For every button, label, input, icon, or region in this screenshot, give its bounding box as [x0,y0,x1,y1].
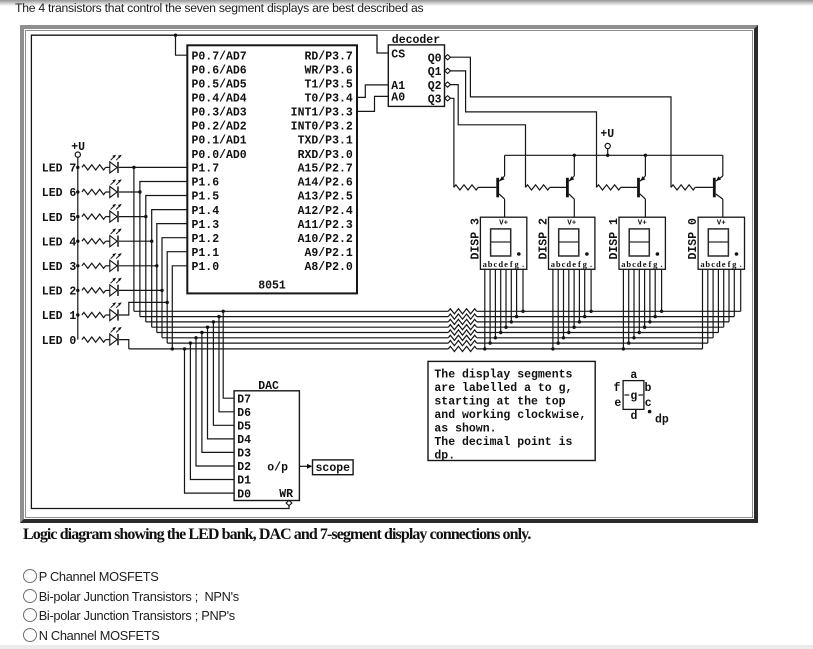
resistor: series resistor in bus line 4 [448,325,476,330]
wire: 8051 P1.0 over and down to bus line 8 [172,266,187,349]
wire: DISP 0 segment d riser [717,269,719,332]
wire: DISP 2 segment dp riser [590,269,592,311]
resistor: LED 1 series resistor [82,312,106,317]
junction: riser a on bus line 8 [622,347,625,350]
junction: riser b on bus line 7 [627,341,630,344]
svg-text:starting at the top: starting at the top [434,395,565,408]
junction: P1.7 tap [132,166,135,169]
junction: LED 2 joins P1.2 vertical [160,289,163,292]
svg-text:b: b [705,259,710,269]
LED 0 diode symbol [110,327,122,345]
symbol: decimal point of DISP 2 [585,252,589,256]
junction: D1 tap on bus line 7 [189,341,192,344]
LED 1 diode symbol [110,302,122,320]
svg-text:f: f [510,259,513,269]
junction: D2 tap on bus line 6 [194,336,197,339]
wire: resistor to LED 0 [106,339,110,341]
wire: DISP 0 segment c riser [712,269,714,338]
wire: resistor to LED 5 [106,216,110,218]
svg-text:INT1/P3.3: INT1/P3.3 [291,107,353,120]
wire: bus line 5 tap down to DAC D3 [202,333,234,453]
svg-text:+U: +U [600,128,614,141]
svg-text:a: a [630,369,637,382]
wire: DISP 1 segment dp riser [661,269,663,311]
wire: DISP 2 segment a riser [552,269,554,349]
wire: DISP 1 segment b riser [628,269,630,343]
svg-text:8051: 8051 [258,279,286,292]
pin labels abcdefg. of DISP 1 [621,259,662,269]
junction: riser f on bus line 3 [578,320,581,323]
resistor: LED 6 series resistor [82,189,106,194]
svg-text:V+: V+ [638,219,648,227]
junction: riser g on bus line 2 [654,315,657,318]
resistor: LED 4 series resistor [82,239,106,244]
wire: DISP 0 segment dp riser [740,269,742,311]
wire: DISP 2 segment c riser [563,269,565,338]
svg-text:d: d [631,410,638,423]
resistor: base resistor of driver Q1 (DISP 0) [671,185,695,190]
junction: rail/LED 3 [76,264,79,267]
wire: base resistor to transistor base [550,186,566,188]
resistor: LED 5 series resistor [82,214,106,219]
junction: rail/+U feed [606,154,609,157]
pin labels abcdefg. of DISP 3 [483,259,524,269]
svg-text:TXD/P3.1: TXD/P3.1 [298,135,353,148]
junction: rail/LED 4 [76,240,79,243]
svg-text:o/p: o/p [267,462,288,475]
wire: DISP 2 segment g riser [584,269,586,316]
wire: collector of Q2 down to DISP 1 V+ [644,199,646,217]
svg-text:RXD/P3.0: RXD/P3.0 [298,149,353,162]
svg-text:DAC: DAC [258,380,279,393]
junction: D5 tap on bus line 3 [212,320,215,323]
symbol: decimal point of DISP 3 [517,252,521,256]
junction: riser b on bus line 7 [557,341,560,344]
decoder U2 box [388,45,444,107]
svg-text:g: g [630,390,637,403]
wire: bus line 1 tap down to DAC D7 [223,311,234,398]
wire: segment bus line 8 [129,348,449,350]
wire: bus line 7 to displays [477,342,708,344]
wire: DISP 1 segment g riser [654,269,656,316]
wire: Q2 to DISP 2 driver base resistor [451,85,526,188]
junction: riser d on bus line 5 [638,331,641,334]
svg-text:P1.2: P1.2 [192,233,220,246]
svg-text:g: g [583,259,588,269]
svg-text:.: . [661,259,663,269]
connector: Q1 output terminal [445,68,451,73]
junction: riser dp on bus line 1 [589,310,592,313]
pin labels abcdefg. of DISP 2 [551,259,592,269]
svg-text:d: d [498,259,503,269]
wire: emitter of Q3 up to +U rail [573,155,575,176]
wire: DISP 0 segment b riser [707,269,709,343]
svg-text:P0.1/AD1: P0.1/AD1 [192,135,247,148]
junction: riser c on bus line 6 [494,336,497,339]
svg-text:c: c [645,397,652,410]
junction: rail/T3 emitter [644,154,647,157]
wire: bus line 3 to displays [477,321,729,323]
svg-text:P0.7/AD7: P0.7/AD7 [192,50,247,63]
wire: LED 6 to its vertical [119,191,140,193]
wire: tap down to 8051 pin P0.7/AD7 [176,35,188,55]
svg-text:b: b [645,382,652,395]
svg-text:.: . [590,259,592,269]
wire: LED 0 jog down to bus line 8 [119,340,129,349]
svg-text:e: e [572,259,576,269]
svg-text:g: g [514,259,519,269]
junction: rail/T2 emitter [573,154,576,157]
wire: DISP 1 segment e riser [644,269,646,327]
wire: bus line 2 to displays [477,316,735,318]
resistor: series resistor in bus line 5 [448,330,476,335]
wire: DAC o/p to scope [299,465,308,467]
junction: riser d on bus line 5 [567,331,570,334]
svg-text:INT0/P3.2: INT0/P3.2 [291,121,353,134]
svg-text:LED 4: LED 4 [42,236,77,249]
svg-text:D6: D6 [237,407,251,420]
svg-text:Q0: Q0 [428,52,442,65]
wire: DISP 0 segment g riser [733,269,735,316]
wire: collector of Q4 down to DISP 3 V+ [504,199,506,217]
LED 7 diode symbol [110,155,122,173]
wire: resistor to LED 7 [106,166,110,168]
junction: D0 tap on bus line 8 [183,347,186,350]
wire: DISP 3 segment d riser [500,269,502,332]
wire: DISP 1 segment d riser [638,269,640,332]
svg-text:d: d [637,259,642,269]
wire: P1.7 vertical down to bus line 1 [133,167,135,311]
wire: DISP 1 segment a riser [622,269,624,349]
wire: DISP 3 segment g riser [516,269,518,316]
wire: resistor to LED 1 [106,314,110,316]
junction: D4 tap on bus line 4 [206,326,209,329]
display: DISP 1 7-segment module box [619,217,665,269]
resistor: base resistor of driver Q2 (DISP 1) [597,185,621,190]
svg-text:The display segments: The display segments [434,368,572,381]
svg-text:A15/P2.7: A15/P2.7 [298,163,353,176]
junction: riser e on bus line 4 [504,326,507,329]
resistor: base resistor of driver Q3 (DISP 2) [526,185,550,190]
wire: 8051 P1.2 over and down to bus line 6 [162,238,187,338]
svg-text:Q3: Q3 [428,94,442,107]
LED 5 diode symbol [110,204,122,222]
wire: emitter of Q4 up to +U rail [504,155,506,176]
wire: DISP 2 segment f riser [578,269,580,322]
resistor: series resistor in bus line 1 [448,309,476,314]
svg-text:D3: D3 [237,448,251,461]
wire: DISP 3 segment c riser [494,269,496,338]
wire: DISP 3 segment e riser [505,269,507,327]
svg-text:A9/P2.1: A9/P2.1 [304,247,352,260]
svg-text:V+: V+ [717,219,727,227]
resistor: LED 3 series resistor [82,263,106,268]
LED 6 diode symbol [110,179,122,197]
connector: Q0 output terminal [445,55,451,60]
svg-text:P0.0/AD0: P0.0/AD0 [192,149,247,162]
svg-text:LED 2: LED 2 [42,286,77,299]
svg-text:A0: A0 [391,92,405,105]
note: segment labelling text box [428,361,595,462]
wire: base resistor to transistor base [478,186,496,188]
junction: riser d on bus line 5 [499,331,502,334]
symbol: digit outline of DISP 3 [491,229,511,256]
svg-text:WR/P3.6: WR/P3.6 [304,65,352,78]
svg-text:The decimal point is: The decimal point is [434,436,572,449]
display: DISP 0 7-segment module box [698,217,744,269]
wire: segment bus line 2 [140,316,448,318]
svg-text:d: d [566,259,571,269]
wire: resistor to LED 4 [106,240,110,242]
svg-text:f: f [614,382,621,395]
wire: LED 5 to its vertical [119,216,146,218]
symbol: decimal point of DISP 1 [656,252,660,256]
svg-text:b: b [556,259,561,269]
svg-text:DISP 2: DISP 2 [537,218,550,260]
svg-text:A8/P2.0: A8/P2.0 [304,261,352,274]
pin labels abcdefg. of DISP 0 [700,259,741,269]
svg-text:Q2: Q2 [428,80,442,93]
wire: bus line 4 to displays [477,326,724,328]
svg-text:f: f [648,259,651,269]
op: 8051 microcontroller U1 box [187,45,357,293]
wire: DISP 0 segment e riser [723,269,725,327]
wire: DISP 1 segment f riser [649,269,651,322]
svg-text:as shown.: as shown. [434,422,496,435]
svg-text:P1.6: P1.6 [192,177,220,190]
svg-text:g: g [653,259,658,269]
svg-text:LED 1: LED 1 [42,310,77,323]
junction: rail/LED 6 [76,190,79,193]
svg-text:P1.3: P1.3 [192,219,220,232]
svg-text:LED 0: LED 0 [42,335,77,348]
svg-text:.: . [740,259,742,269]
junction: P1.0 on bus line 8 [171,347,174,350]
svg-text:A10/P2.2: A10/P2.2 [298,233,353,246]
svg-text:Q1: Q1 [428,66,442,79]
display: DISP 2 7-segment module box [549,217,595,269]
wire: bus line 6 tap down to DAC D2 [196,338,234,466]
svg-text:f: f [578,259,581,269]
junction: riser f on bus line 3 [648,320,651,323]
wire: segment bus line 5 [157,332,449,334]
svg-text:LED 3: LED 3 [42,261,77,274]
junction: LED 1 on P1.1 vertical [166,301,169,304]
svg-text:T1/P3.5: T1/P3.5 [304,79,352,92]
svg-text:LED 7: LED 7 [42,163,77,176]
svg-text:RD/P3.7: RD/P3.7 [304,50,352,63]
junction: riser g on bus line 2 [515,315,518,318]
wire: Q1 to DISP 1 driver base resistor [451,71,597,187]
svg-text:e: e [722,259,726,269]
wire: DISP 3 segment dp riser [522,269,524,311]
svg-text:P0.6/AD6: P0.6/AD6 [192,65,247,78]
svg-text:LED 5: LED 5 [42,212,77,225]
transistor: PNP driver Q4 for DISP 3 [496,176,504,199]
wire: 8051 P1.3 over and down to bus line 5 [157,224,188,333]
svg-text:f: f [728,259,731,269]
wire: bus line 8 tap down to DAC D0 [185,349,235,493]
wire: LED 2 to its vertical [119,289,162,291]
diagram: segment naming sketch [614,369,669,427]
svg-text:A12/P2.4: A12/P2.4 [298,205,353,218]
wire: DISP 3 segment b riser [489,269,491,343]
junction: riser dp on bus line 1 [521,310,524,313]
junction: riser c on bus line 6 [562,336,565,339]
svg-text:P0.4/AD4: P0.4/AD4 [192,93,247,106]
svg-text:P1.1: P1.1 [192,247,220,260]
svg-text:P1.4: P1.4 [192,205,220,218]
symbol: digit outline of DISP 2 [559,229,579,256]
svg-text:P0.3/AD3: P0.3/AD3 [192,107,247,120]
wire: DISP 3 segment a riser [484,269,486,349]
junction: D7 tap on bus line 1 [222,310,225,313]
junction: rail/LED 1 [76,313,79,316]
wire: resistor to LED 6 [106,191,110,193]
wire: emitter of Q2 up to +U rail [644,155,646,176]
wire: bus line 2 tap down to DAC D6 [219,317,234,412]
wire: Q0 to DISP 0 driver base resistor [451,57,672,187]
resistor: series resistor in bus line 8 [448,346,476,351]
svg-text:P1.0: P1.0 [192,261,220,274]
resistor: series resistor in bus line 6 [448,335,476,340]
svg-text:D4: D4 [237,434,251,447]
connector: Q3 output terminal [445,96,451,101]
svg-text:dp.: dp. [434,449,455,462]
junction: riser a on bus line 8 [483,347,486,350]
scope box [313,460,354,475]
wire: segment bus line 3 [146,321,449,323]
svg-text:D7: D7 [237,393,251,406]
wire: +U emitter rail [505,154,723,156]
svg-text:and working clockwise,: and working clockwise, [434,409,586,422]
svg-text:LED 6: LED 6 [42,187,77,200]
wire: DISP 0 segment a riser [702,269,704,349]
svg-text:g: g [732,259,737,269]
wire: bus line 4 tap down to DAC D4 [208,327,235,439]
junction: LED 5 joins P1.5 vertical [144,215,147,218]
junction: riser dp on bus line 1 [660,310,663,313]
LED 3 diode symbol [110,253,122,271]
svg-text:decoder: decoder [392,34,440,47]
junction: P0.7 tap on top border wire [174,34,177,37]
junction: LED 4 joins P1.4 vertical [150,240,153,243]
junction: LED 3 joins P1.3 vertical [155,264,158,267]
wire: bus line 3 tap down to DAC D5 [213,322,234,425]
wire: CS/WR net routed around schematic border (P0.7 / decoder CS / DAC WR) [31,35,388,508]
svg-text:d: d [716,259,721,269]
wire: LED 3 to its vertical [119,265,157,267]
wire: resistor to LED 2 [106,289,110,291]
junction: rail/LED 5 [76,215,79,218]
junction: rail/LED 7 [76,166,79,169]
resistor: base resistor of driver Q4 (DISP 3) [454,185,478,190]
wire: DISP 0 segment f riser [728,269,730,322]
svg-text:A13/P2.5: A13/P2.5 [298,191,353,204]
wire: 8051 P1.1 over and down to bus line 7 [167,252,187,343]
wire: base resistor to transistor base [621,186,637,188]
junction: riser b on bus line 7 [488,341,491,344]
symbol: decimal point of DISP 0 [735,252,739,256]
svg-text:P1.7: P1.7 [192,163,220,176]
junction: riser c on bus line 6 [632,336,635,339]
wire: bus line 5 to displays [477,332,719,334]
svg-text:CS: CS [391,49,405,62]
wire: 8051 INT1/P3.3 to decoder A0 [357,96,388,111]
svg-text:b: b [626,259,631,269]
wire: emitter of Q1 up to +U rail [722,155,724,176]
LED 2 diode symbol [110,278,122,296]
wire: DISP 1 segment c riser [633,269,635,338]
junction: riser a on bus line 8 [551,347,554,350]
wire: bus line 6 to displays [477,337,713,339]
svg-text:c: c [562,259,566,269]
resistor: series resistor in bus line 2 [448,314,476,319]
svg-text:P0.5/AD5: P0.5/AD5 [192,79,247,92]
DAC U3 box [234,391,299,501]
resistor: LED 0 series resistor [82,337,106,342]
wire: DISP 2 segment b riser [557,269,559,343]
svg-text:D0: D0 [237,488,251,501]
svg-text:D2: D2 [237,461,251,474]
svg-text:DISP 3: DISP 3 [469,218,482,260]
junction: riser g on bus line 2 [583,315,586,318]
connector: DAC WR strobe terminal [286,500,292,505]
wire: resistor to LED 3 [106,265,110,267]
display: DISP 3 7-segment module box [480,217,526,269]
svg-text:dp: dp [655,413,669,426]
svg-text:D5: D5 [237,421,251,434]
resistor: series resistor in bus line 7 [448,341,476,346]
svg-text:c: c [711,259,715,269]
wire: bus line 8 to displays [477,348,703,350]
wire: 8051 P1.4 over and down to bus line 4 [152,210,188,328]
transistor: PNP driver Q2 for DISP 1 [637,176,645,199]
wire: segment bus line 1 [134,310,448,312]
svg-text:D1: D1 [237,475,251,488]
connector: Q2 output terminal [445,82,451,87]
wire: DISP 2 segment e riser [573,269,575,327]
svg-text:P1.5: P1.5 [192,191,220,204]
wire: bus line 7 tap down to DAC D1 [190,343,234,479]
resistor: LED 2 series resistor [82,288,106,293]
resistor: series resistor in bus line 3 [448,319,476,324]
svg-text:WR: WR [279,488,293,501]
svg-text:c: c [494,259,498,269]
wire: bus line 1 to displays [477,310,741,312]
wire: collector of Q1 down to DISP 0 V+ [722,199,724,217]
svg-text:DISP 1: DISP 1 [608,218,621,260]
svg-text:DISP 0: DISP 0 [687,218,700,260]
junction: D3 tap on bus line 5 [200,331,203,334]
svg-text:A11/P2.3: A11/P2.3 [298,219,353,232]
LED 4 diode symbol [110,228,122,246]
transistor: PNP driver Q3 for DISP 2 [566,176,574,199]
wire: LED 4 to its vertical [119,240,152,242]
wire: 8051 T0/P3.4 to decoder A1 [357,85,388,98]
junction: LED 6 joins P1.6 vertical [138,190,141,193]
junction: D6 tap on bus line 2 [217,315,220,318]
svg-text:T0/P3.4: T0/P3.4 [304,93,352,106]
svg-text:e: e [614,397,621,410]
wire: LED anode rail [77,167,79,339]
wire: DISP 3 segment f riser [510,269,512,322]
svg-text:V+: V+ [499,219,509,227]
junction: riser f on bus line 3 [510,320,513,323]
wire: segment bus line 6 [162,337,448,339]
svg-text:e: e [504,259,508,269]
wire: 8051 P1.6 over and down to bus line 2 [140,182,187,317]
